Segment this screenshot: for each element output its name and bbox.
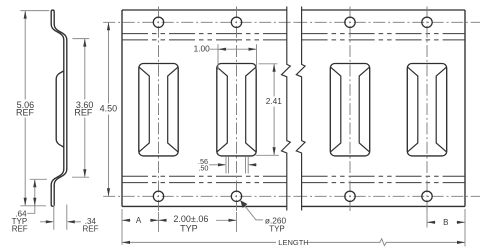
rail left edge bbox=[121, 10, 123, 206]
rail top edge bbox=[122, 9, 465, 11]
centerline column 1 bbox=[158, 7, 160, 212]
dimension 3.60 REF bbox=[72, 39, 89, 178]
slot S1 inner recess bbox=[139, 67, 178, 152]
hole H3 top bbox=[345, 17, 355, 27]
slot S3 outer bbox=[330, 64, 369, 156]
svg-text:.50: .50 bbox=[198, 164, 208, 173]
fold line bottom 2 (phantom) bbox=[122, 182, 465, 184]
svg-text:4.50: 4.50 bbox=[100, 104, 118, 114]
break line right bbox=[296, 7, 305, 211]
dimension A bbox=[122, 209, 159, 245]
svg-text:2.00±.06: 2.00±.06 bbox=[173, 214, 208, 224]
break line left bbox=[282, 7, 291, 211]
svg-text:REF: REF bbox=[74, 107, 93, 117]
profile web bbox=[64, 40, 67, 169]
dimension 1.00 bbox=[210, 44, 257, 69]
dimension 2.41 bbox=[256, 64, 279, 156]
svg-text:A: A bbox=[136, 216, 142, 225]
profile bottom flange bbox=[51, 187, 54, 207]
centerline column 2 bbox=[236, 7, 238, 212]
svg-text:B: B bbox=[443, 218, 448, 227]
hole H1 top bbox=[153, 17, 163, 27]
profile slot recess line bbox=[56, 71, 63, 147]
hole H5 bottom bbox=[153, 191, 163, 201]
fold line top 2 (phantom) bbox=[122, 39, 465, 41]
profile top S-bend bbox=[51, 24, 67, 40]
dimension 2.00 +/- .06 TYP bbox=[159, 212, 237, 232]
dimension B bbox=[427, 209, 465, 247]
profile bottom S-bend bbox=[51, 169, 67, 187]
hole H8 bottom bbox=[422, 191, 432, 201]
svg-text:LENGTH: LENGTH bbox=[278, 238, 308, 247]
profile top flange bbox=[51, 10, 54, 24]
dimension .64 TYP REF bbox=[27, 179, 47, 213]
slot S1 outer bbox=[139, 64, 178, 156]
fold line top 1 (phantom) bbox=[122, 33, 465, 35]
dimension 5.06 REF bbox=[20, 11, 49, 206]
svg-text:REF: REF bbox=[12, 225, 28, 234]
slot S4 inner recess bbox=[408, 67, 447, 152]
dimension .56 / .50 bbox=[209, 157, 257, 174]
slot S4 outer bbox=[407, 64, 446, 156]
dimension .34 REF bbox=[40, 205, 81, 230]
svg-text:1.00: 1.00 bbox=[194, 44, 211, 54]
svg-text:REF: REF bbox=[16, 107, 35, 117]
dimension 4.50 bbox=[108, 23, 110, 196]
svg-text:2.41: 2.41 bbox=[266, 96, 283, 106]
slot S2 outer bbox=[217, 64, 256, 156]
centerline top hole row bbox=[103, 21, 295, 23]
svg-text:TYP: TYP bbox=[269, 225, 285, 234]
centerline bottom hole row bbox=[103, 195, 295, 197]
hole H4 top bbox=[422, 17, 432, 27]
fold line bottom 1 (phantom) bbox=[122, 175, 465, 177]
dimension LENGTH bbox=[122, 239, 465, 246]
dimension dia .260 TYP leader bbox=[240, 200, 263, 220]
svg-text:TYP: TYP bbox=[180, 224, 198, 234]
hole H2 top bbox=[231, 17, 241, 27]
rail bottom edge bbox=[122, 205, 465, 207]
rail right edge bbox=[464, 10, 466, 206]
hole H6 bottom bbox=[231, 191, 241, 201]
slot S2 inner recess bbox=[217, 67, 256, 152]
slot S3 inner recess bbox=[331, 67, 370, 152]
hole H7 bottom bbox=[345, 191, 355, 201]
svg-text:REF: REF bbox=[83, 225, 99, 234]
centerline column 4 bbox=[426, 7, 428, 212]
centerline column 3 bbox=[349, 7, 351, 212]
